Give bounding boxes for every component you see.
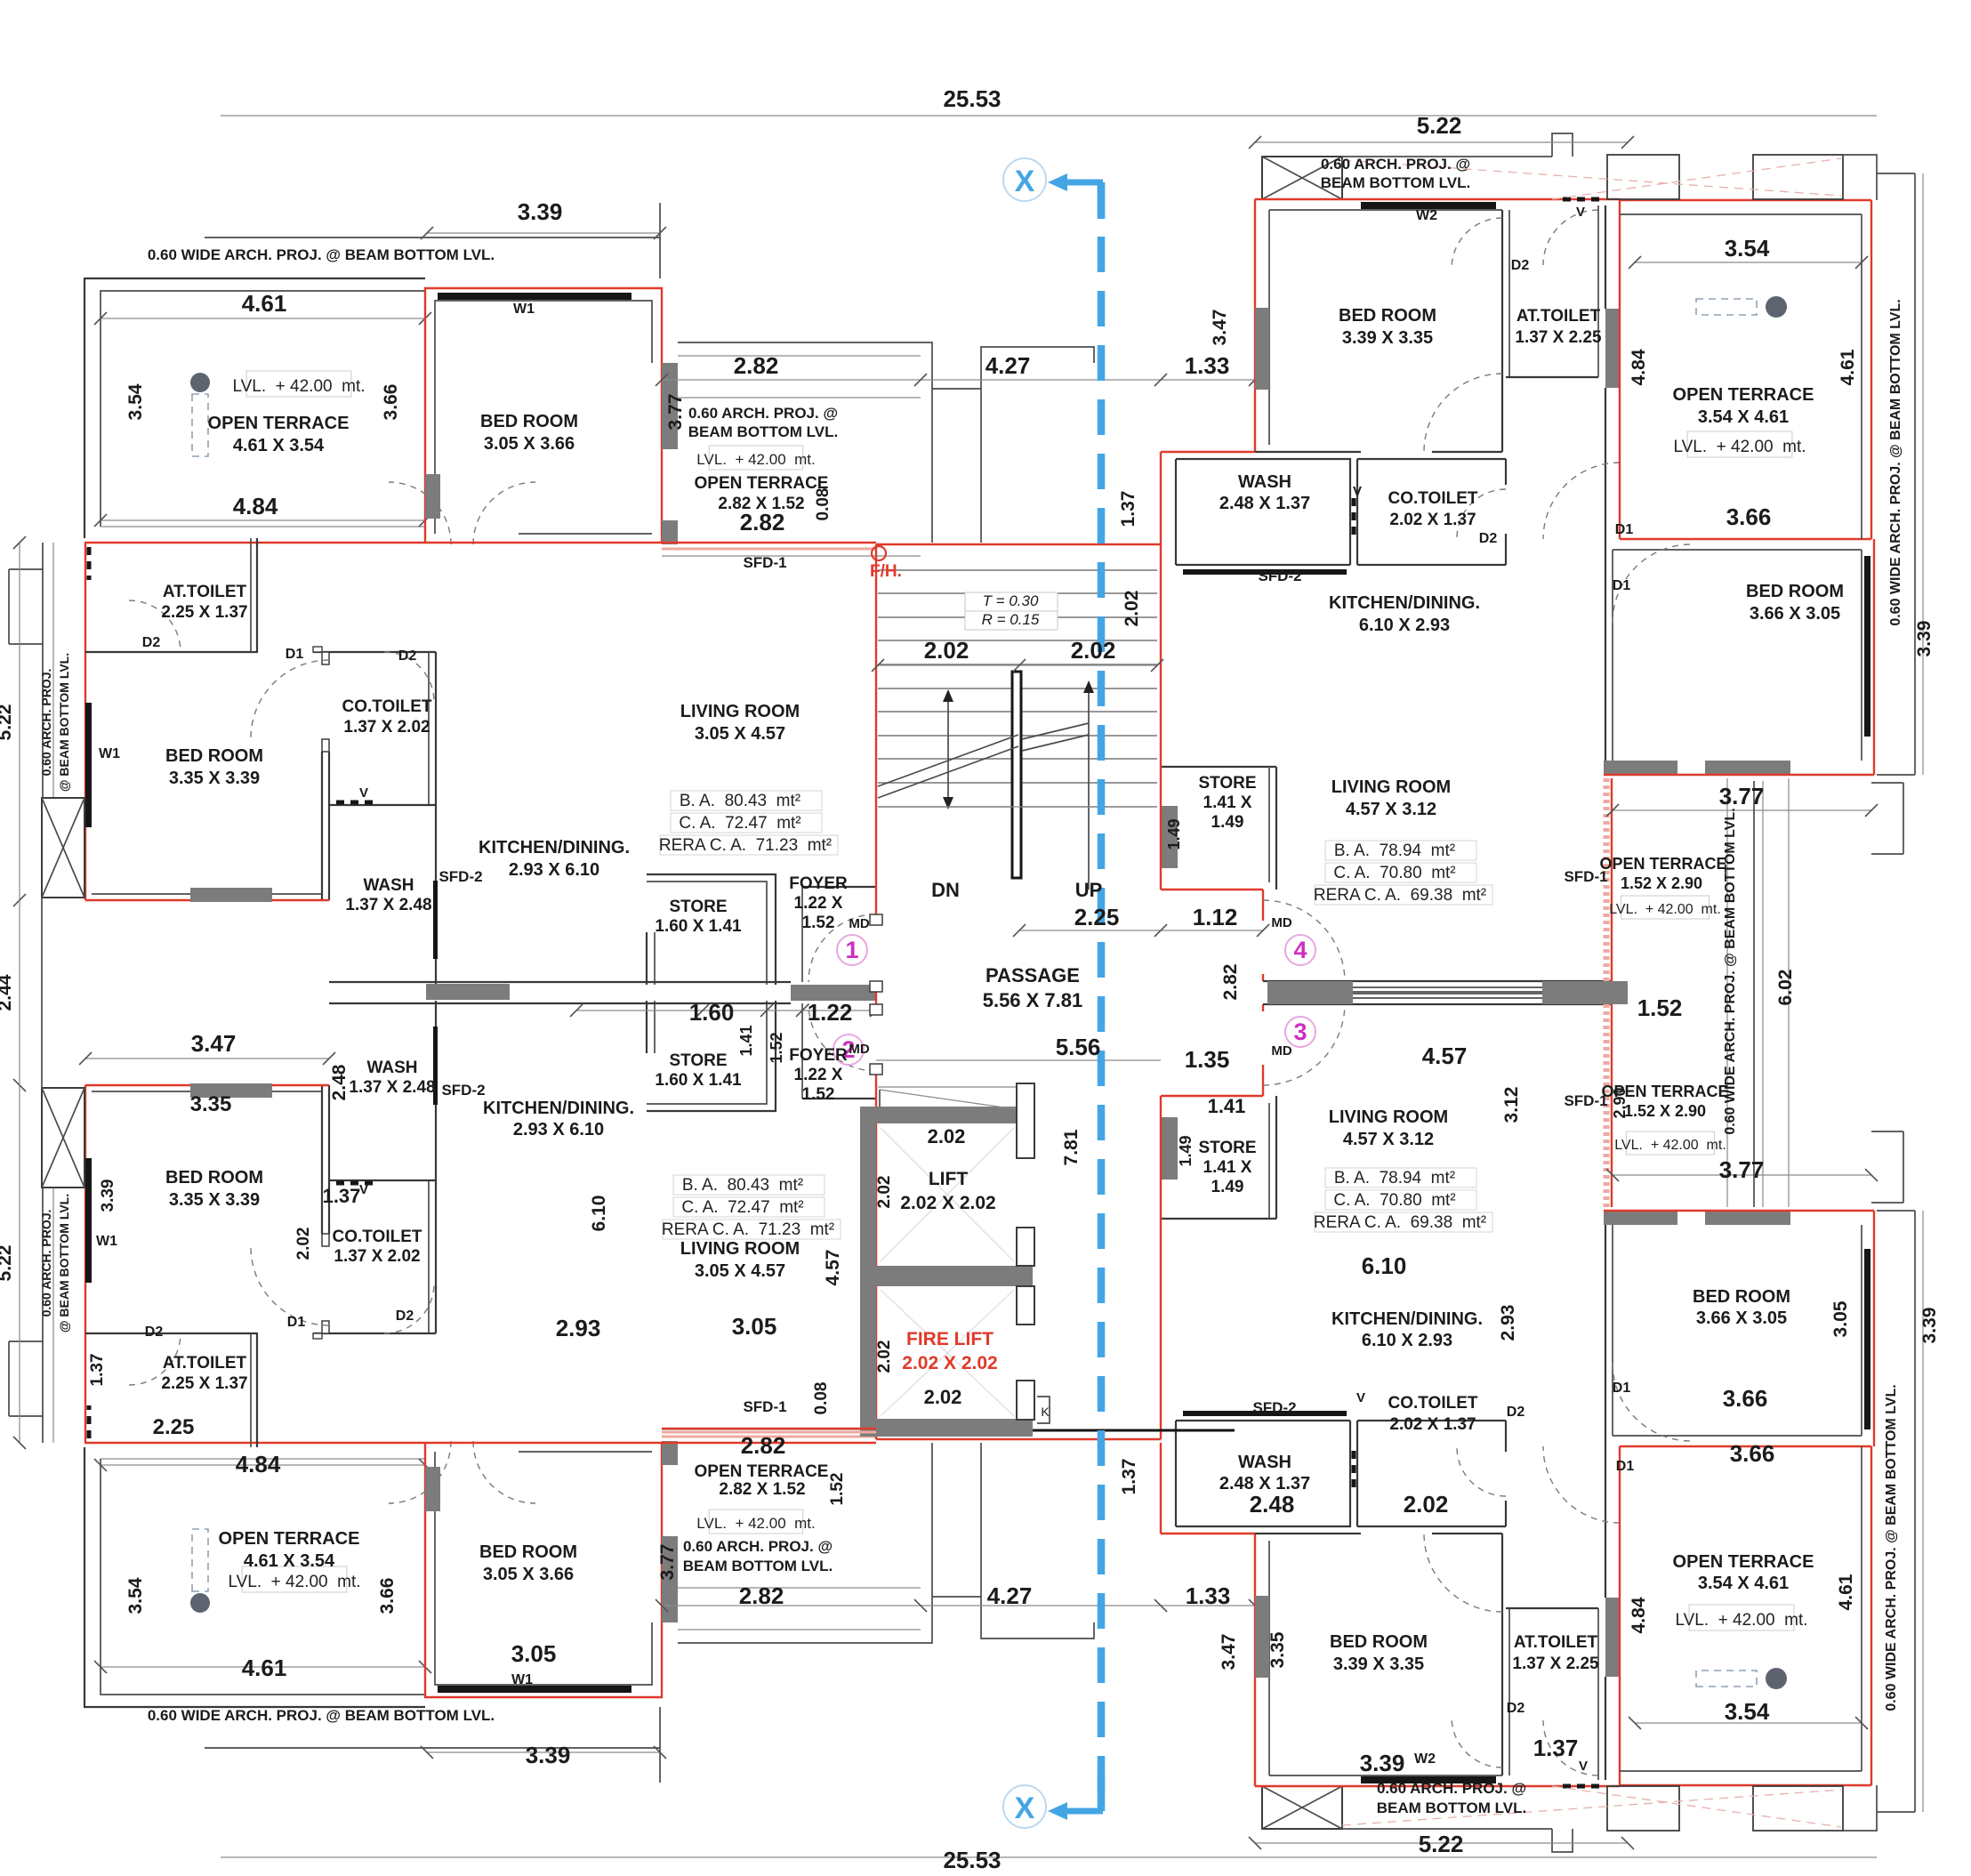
svg-text:4.27: 4.27 (987, 1582, 1033, 1609)
foyer MD door arc (809, 914, 876, 982)
bedroom right inner walls (1268, 210, 1270, 445)
svg-text:B. A. 78.94 mt²: B. A. 78.94 mt² (1334, 1169, 1455, 1188)
svg-text:MD: MD (1271, 1043, 1291, 1059)
svg-text:X: X (1015, 1791, 1035, 1825)
6.02 dim vertical (1788, 778, 1790, 993)
door arc D1 bedroom ML (251, 660, 329, 738)
svg-text:R = 0.15: R = 0.15 (982, 611, 1040, 628)
svg-text:BED ROOM: BED ROOM (480, 412, 578, 431)
svg-text:3.54 X 4.61: 3.54 X 4.61 (1698, 1574, 1789, 1593)
svg-text:1.37 X 2.25: 1.37 X 2.25 (1512, 1655, 1599, 1673)
svg-text:4.57 X 3.12: 4.57 X 3.12 (1343, 1130, 1434, 1149)
courtyard dim 3.47 left (85, 1058, 329, 1059)
svg-text:CO.TOILET: CO.TOILET (1388, 489, 1478, 508)
svg-text:0.60 WIDE ARCH. PROJ. @ BEAM B: 0.60 WIDE ARCH. PROJ. @ BEAM BOTTOM LVL. (148, 1707, 495, 1724)
window W2 black bar (1361, 202, 1496, 209)
svg-text:FOYER: FOYER (789, 1046, 848, 1065)
door arc 4 (unit entry) (1263, 900, 1345, 982)
svg-text:0.08: 0.08 (814, 488, 833, 521)
svg-text:STORE: STORE (669, 898, 727, 916)
vent V at.toilet (87, 547, 92, 580)
svg-text:2.25: 2.25 (153, 1415, 195, 1439)
svg-text:1.37 X 2.25: 1.37 X 2.25 (1515, 328, 1602, 347)
svg-text:3.66: 3.66 (377, 1578, 398, 1614)
svg-text:BED ROOM: BED ROOM (1746, 582, 1844, 601)
svg-text:AT.TOILET: AT.TOILET (1514, 1633, 1598, 1652)
svg-text:MD: MD (849, 916, 869, 931)
right terrace strip 1.52x2.90 (1611, 778, 1613, 981)
SFD-2 black bar (433, 881, 438, 959)
svg-text:2.82: 2.82 (739, 1582, 784, 1609)
svg-text:BED ROOM: BED ROOM (1693, 1287, 1790, 1307)
svg-text:4.84: 4.84 (1629, 1597, 1649, 1633)
svg-text:K: K (1041, 1405, 1050, 1419)
svg-text:3.05 X 3.66: 3.05 X 3.66 (484, 434, 575, 454)
WASH mid-left walls (435, 805, 437, 985)
svg-text:4.61: 4.61 (242, 290, 287, 317)
svg-text:D2: D2 (1507, 1701, 1525, 1716)
svg-text:2.90: 2.90 (1611, 1087, 1629, 1118)
svg-text:25.53: 25.53 (943, 85, 1001, 112)
WASH right walls (1176, 459, 1350, 565)
svg-text:W1: W1 (511, 1672, 533, 1687)
svg-text:6.10: 6.10 (1362, 1252, 1407, 1279)
lower corridor wall fill left wing (426, 984, 510, 1000)
svg-text:BED ROOM: BED ROOM (165, 746, 263, 766)
svg-text:CO.TOILET: CO.TOILET (333, 1228, 422, 1246)
SFD-2 right black bar (1183, 569, 1347, 575)
left dim vertical 2.44 (19, 900, 20, 1085)
kitchen/dining right upper boundary red ledge (1161, 451, 1255, 453)
svg-text:MD: MD (1271, 915, 1291, 930)
dim line 2.82 lower (662, 555, 921, 557)
svg-text:2.48: 2.48 (1250, 1491, 1295, 1518)
svg-text:LIVING ROOM: LIVING ROOM (680, 1239, 800, 1259)
svg-text:LVL. + 42.00 mt.: LVL. + 42.00 mt. (1673, 438, 1806, 456)
svg-text:1.33: 1.33 (1186, 1582, 1231, 1609)
svg-text:3.54: 3.54 (125, 1577, 146, 1614)
svg-text:3.39 X 3.35: 3.39 X 3.35 (1333, 1655, 1424, 1674)
svg-text:0.60 ARCH. PROJ. @: 0.60 ARCH. PROJ. @ (683, 1538, 833, 1555)
svg-text:4.61: 4.61 (242, 1655, 287, 1681)
unit number circle 2 (833, 1035, 864, 1065)
LVL +42.00 box (1621, 896, 1709, 919)
svg-text:D1: D1 (287, 1315, 306, 1330)
svg-text:3.39: 3.39 (526, 1742, 571, 1768)
svg-text:2.02: 2.02 (875, 1176, 894, 1209)
svg-text:5.56 X 7.81: 5.56 X 7.81 (983, 989, 1083, 1011)
svg-text:V: V (1576, 205, 1585, 220)
right strip inner edge (1726, 778, 1728, 1207)
terrace right rainpipe icon (1696, 299, 1757, 315)
lift left gray wall (860, 1123, 876, 1419)
svg-text:W1: W1 (96, 1234, 117, 1249)
svg-text:5.56: 5.56 (1056, 1034, 1101, 1060)
svg-text:SFD-2: SFD-2 (438, 868, 482, 885)
svg-text:2.82: 2.82 (741, 1432, 786, 1459)
svg-text:RERA C. A. 69.38 mt²: RERA C. A. 69.38 mt² (1314, 886, 1486, 905)
window W1 black bar (438, 293, 632, 300)
CO.TOILET right walls (1356, 459, 1358, 565)
svg-text:1.41 X: 1.41 X (1203, 793, 1252, 812)
svg-text:LVL. + 42.00 mt.: LVL. + 42.00 mt. (696, 1515, 815, 1532)
svg-text:1.60 X 1.41: 1.60 X 1.41 (655, 1071, 742, 1090)
svg-text:4.84: 4.84 (236, 1451, 281, 1477)
svg-text:1.60 X 1.41: 1.60 X 1.41 (655, 917, 742, 936)
svg-text:RERA C. A. 71.23 mt²: RERA C. A. 71.23 mt² (659, 836, 832, 855)
open terrace 2.82x1.52 proj lines (678, 342, 932, 543)
red boundary under terrace 2.82 (662, 542, 876, 543)
red top boundary right unit (1255, 198, 1620, 200)
pink dashed diagonals top-right (1342, 160, 1841, 196)
svg-text:D2: D2 (1507, 1405, 1525, 1420)
bedroom top-left inner walls (435, 301, 652, 534)
CO.TOILET mid-left walls (329, 651, 436, 653)
svg-text:KITCHEN/DINING.: KITCHEN/DINING. (1331, 1309, 1483, 1329)
svg-text:BED ROOM: BED ROOM (1339, 306, 1436, 326)
svg-text:OPEN TERRACE: OPEN TERRACE (695, 1462, 829, 1481)
svg-text:3.35 X 3.39: 3.35 X 3.39 (169, 769, 260, 788)
svg-text:V: V (359, 1182, 368, 1197)
svg-text:6.10 X 2.93: 6.10 X 2.93 (1359, 616, 1450, 635)
svg-text:3.54: 3.54 (1725, 1698, 1770, 1725)
bedroom right2 3.66x3.05 red boundary (1620, 538, 1871, 540)
svg-text:3.54 X 4.61: 3.54 X 4.61 (1698, 407, 1789, 427)
svg-text:3.39 X 3.35: 3.39 X 3.35 (1342, 328, 1433, 348)
svg-text:6.10 X 2.93: 6.10 X 2.93 (1362, 1331, 1452, 1350)
passage dim line 5.56 (876, 1059, 1161, 1061)
svg-text:2.82: 2.82 (1220, 964, 1241, 1001)
svg-text:2.02: 2.02 (1071, 637, 1116, 664)
dim line 2.25/1.12 (1019, 930, 1263, 931)
dim 5.22 top-right (1255, 141, 1628, 143)
dim lines terrace right (1635, 262, 1862, 263)
terrace rainpipe icon (190, 373, 210, 392)
svg-text:2.48: 2.48 (329, 1064, 350, 1100)
svg-text:1.12: 1.12 (1193, 904, 1238, 930)
svg-text:1.22: 1.22 (808, 999, 853, 1026)
svg-text:5.22: 5.22 (0, 705, 15, 741)
svg-text:3.05 X 4.57: 3.05 X 4.57 (695, 724, 785, 744)
door arc D1 bedroom right (1424, 374, 1502, 452)
dim line 4.84 terrace (101, 519, 425, 521)
svg-text:LVL. + 42.00 mt.: LVL. + 42.00 mt. (232, 377, 365, 396)
svg-text:PASSAGE: PASSAGE (985, 964, 1080, 986)
svg-text:V: V (1356, 1390, 1365, 1405)
svg-text:25.53: 25.53 (943, 1847, 1001, 1872)
svg-text:4.61: 4.61 (1838, 349, 1858, 385)
left dim vertical line (19, 543, 20, 900)
svg-text:D1: D1 (286, 647, 304, 662)
svg-text:1.41 X: 1.41 X (1203, 1158, 1252, 1177)
svg-text:0.60 ARCH. PROJ.: 0.60 ARCH. PROJ. (39, 1210, 53, 1317)
svg-text:2.82: 2.82 (740, 509, 785, 535)
svg-text:BED ROOM: BED ROOM (165, 1168, 263, 1188)
open terrace right 3.54x4.61 red boundary (1620, 199, 1871, 201)
svg-text:0.60 ARCH. PROJ. @: 0.60 ARCH. PROJ. @ (1377, 1780, 1526, 1797)
svg-text:5.22: 5.22 (1419, 1831, 1464, 1857)
svg-text:LIVING ROOM: LIVING ROOM (1329, 1107, 1448, 1127)
svg-text:SFD-2: SFD-2 (1258, 568, 1301, 584)
door arc D1 terrace right (1543, 463, 1620, 539)
svg-text:BEAM BOTTOM LVL.: BEAM BOTTOM LVL. (688, 423, 838, 440)
svg-text:1.52: 1.52 (802, 1085, 835, 1104)
svg-text:2.48 X 1.37: 2.48 X 1.37 (1219, 494, 1310, 513)
stair core red boundary left (875, 544, 877, 925)
svg-text:1.60: 1.60 (689, 999, 735, 1026)
svg-text:W2: W2 (1414, 1751, 1436, 1767)
svg-text:4.57 X 3.12: 4.57 X 3.12 (1346, 800, 1436, 819)
pink hatch SFD-1 (662, 548, 876, 551)
red boundary under store right (1161, 889, 1263, 890)
svg-text:3.54: 3.54 (125, 383, 146, 420)
svg-text:BED ROOM: BED ROOM (1330, 1632, 1428, 1652)
STORE top-left walls (647, 874, 776, 985)
store right upper (1161, 806, 1178, 868)
svg-text:2.93 X 6.10: 2.93 X 6.10 (509, 860, 599, 880)
svg-text:2.93: 2.93 (556, 1315, 601, 1341)
svg-text:WASH: WASH (367, 1059, 418, 1077)
svg-text:2.02: 2.02 (875, 1341, 894, 1373)
svg-text:4.61: 4.61 (1836, 1574, 1856, 1610)
LVL +42.00 box (242, 1566, 347, 1592)
svg-text:3.66: 3.66 (1723, 1385, 1768, 1412)
bedroom 3.05x3.66 top-left red boundary (425, 288, 662, 543)
right outer bracket mid (1871, 783, 1903, 854)
svg-text:@ BEAM BOTTOM LVL.: @ BEAM BOTTOM LVL. (57, 1194, 71, 1333)
svg-text:2.02: 2.02 (928, 1125, 966, 1147)
F/H hydrant symbol (872, 546, 886, 560)
svg-text:4.57: 4.57 (823, 1250, 843, 1286)
svg-text:3.39: 3.39 (518, 198, 563, 225)
dim line 4.61 terrace (101, 318, 425, 319)
open terrace top-left outer walls (84, 278, 425, 538)
svg-text:C. A. 72.47 mt²: C. A. 72.47 mt² (681, 1198, 803, 1217)
svg-text:KITCHEN/DINING.: KITCHEN/DINING. (1329, 593, 1480, 613)
svg-text:LVL. + 42.00 mt.: LVL. + 42.00 mt. (1675, 1611, 1807, 1630)
svg-text:1.35: 1.35 (1185, 1046, 1230, 1073)
svg-text:V: V (1579, 1759, 1588, 1774)
svg-text:AT.TOILET: AT.TOILET (163, 583, 247, 601)
svg-text:6.10: 6.10 (589, 1196, 609, 1232)
svg-text:OPEN TERRACE: OPEN TERRACE (695, 474, 829, 493)
svg-text:1.37: 1.37 (1118, 491, 1138, 527)
svg-text:2.25: 2.25 (1074, 904, 1120, 930)
svg-text:3.39: 3.39 (1360, 1750, 1405, 1776)
svg-text:3.39: 3.39 (99, 1180, 117, 1212)
svg-text:2.02: 2.02 (924, 637, 969, 664)
door arc D2 co.toilet (384, 652, 434, 702)
svg-text:0.60 ARCH. PROJ. @: 0.60 ARCH. PROJ. @ (1321, 156, 1470, 173)
AT.TOILET mid-left walls (85, 651, 258, 653)
svg-text:3.39: 3.39 (1914, 621, 1935, 657)
svg-text:D2: D2 (145, 1324, 164, 1340)
svg-text:2.02: 2.02 (1404, 1491, 1449, 1518)
svg-text:OPEN TERRACE: OPEN TERRACE (1599, 855, 1726, 873)
svg-text:1.22 X: 1.22 X (794, 1066, 843, 1084)
bedroom right 3.39x3.35 red left wall (1254, 199, 1256, 452)
svg-text:D1: D1 (1615, 522, 1634, 537)
wall fills right of bedroom (662, 363, 678, 449)
svg-text:1.52 X 2.90: 1.52 X 2.90 (1621, 874, 1702, 892)
LVL +42.00 box (709, 1510, 802, 1534)
svg-text:CO.TOILET: CO.TOILET (1388, 1394, 1478, 1413)
svg-text:D1: D1 (1616, 1459, 1635, 1474)
svg-text:WASH: WASH (1238, 1453, 1291, 1472)
door arc D1 bedroom right2 (1613, 544, 1691, 623)
svg-text:SFD-2: SFD-2 (1252, 1399, 1296, 1416)
svg-text:STORE: STORE (1198, 774, 1256, 793)
upper half plan geometry (9, 133, 1923, 1001)
svg-text:D2: D2 (398, 648, 417, 664)
foyer walls (801, 887, 803, 982)
svg-text:3.05: 3.05 (732, 1313, 777, 1340)
svg-text:3.77: 3.77 (665, 394, 686, 431)
stair center rail (1012, 672, 1021, 878)
lift diag thin line (880, 1090, 1017, 1109)
svg-text:2.93: 2.93 (1498, 1305, 1518, 1341)
dim 3.77 right (1613, 809, 1871, 811)
svg-text:1.49: 1.49 (1177, 1135, 1195, 1166)
svg-text:4.84: 4.84 (233, 493, 278, 519)
svg-text:LVL. + 42.00 mt.: LVL. + 42.00 mt. (1614, 1138, 1726, 1153)
area table (671, 791, 822, 810)
svg-text:D2: D2 (1511, 258, 1530, 273)
section line X-X blue dashed (1003, 158, 1103, 1828)
svg-text:1.49: 1.49 (1165, 818, 1183, 849)
svg-text:LIFT: LIFT (929, 1169, 968, 1189)
svg-text:3.66 X 3.05: 3.66 X 3.05 (1750, 604, 1840, 624)
svg-text:2.82: 2.82 (734, 352, 779, 379)
K box (1037, 1397, 1050, 1423)
svg-text:STORE: STORE (669, 1051, 727, 1070)
svg-text:3.47: 3.47 (1210, 310, 1230, 346)
LVL +42.00 box (1626, 1131, 1714, 1155)
svg-text:7.81: 7.81 (1061, 1129, 1082, 1165)
svg-text:4.84: 4.84 (1629, 349, 1649, 385)
area table (673, 1175, 825, 1195)
lift bottom gray band (860, 1419, 1033, 1437)
svg-text:V: V (1353, 484, 1362, 499)
svg-text:3.66 X 3.05: 3.66 X 3.05 (1696, 1308, 1787, 1328)
black line below fire lift (1033, 1429, 1235, 1432)
svg-text:0.60 WIDE ARCH. PROJ. @ BEAM B: 0.60 WIDE ARCH. PROJ. @ BEAM BOTTOM LVL. (148, 246, 495, 263)
svg-text:1.37 X 2.02: 1.37 X 2.02 (343, 718, 430, 737)
lift shaft top gray band (860, 1107, 1033, 1123)
stair direction arrows (947, 694, 949, 805)
bedroom mid-left walls (313, 651, 329, 653)
svg-text:BEAM BOTTOM LVL.: BEAM BOTTOM LVL. (1321, 174, 1470, 191)
svg-text:SFD-1: SFD-1 (743, 554, 786, 571)
vent V dashes on top wall (1563, 197, 1603, 202)
svg-text:WASH: WASH (364, 876, 414, 895)
unit number circle 4 (1285, 935, 1315, 965)
top-right arch proj column box (1262, 157, 1342, 199)
svg-text:D2: D2 (396, 1308, 414, 1324)
svg-text:4: 4 (1293, 937, 1307, 963)
unit1 red boundary along terrace bottom (84, 542, 662, 543)
svg-text:1.49: 1.49 (1211, 813, 1244, 832)
dim line 2.82/4.27/1.33 row (662, 379, 1255, 381)
svg-text:2.44: 2.44 (0, 974, 15, 1010)
svg-text:LIVING ROOM: LIVING ROOM (680, 702, 800, 721)
proj outline right of terrace2.82 (932, 389, 981, 543)
lift mid gray band (876, 1266, 1033, 1286)
LVL +42.00 box (709, 446, 802, 470)
svg-text:FIRE LIFT: FIRE LIFT (906, 1329, 994, 1349)
svg-text:3.05: 3.05 (1830, 1300, 1851, 1337)
svg-text:X: X (1015, 165, 1035, 198)
svg-text:1.52: 1.52 (828, 1473, 847, 1506)
svg-text:1.49: 1.49 (1211, 1178, 1244, 1196)
svg-text:RERA C. A. 69.38 mt²: RERA C. A. 69.38 mt² (1314, 1213, 1486, 1232)
svg-text:T = 0.30: T = 0.30 (983, 592, 1039, 609)
svg-text:1.37: 1.37 (1119, 1459, 1139, 1495)
svg-text:3.05 X 4.57: 3.05 X 4.57 (695, 1261, 785, 1281)
svg-text:OPEN TERRACE: OPEN TERRACE (208, 414, 350, 433)
dim line 25.53 top (221, 115, 1877, 117)
top-left arch projection line (205, 237, 660, 238)
svg-text:0.60 WIDE ARCH. PROJ. @ BEAM B: 0.60 WIDE ARCH. PROJ. @ BEAM BOTTOM LVL. (1884, 1384, 1899, 1711)
tread/riser info box (965, 592, 1058, 630)
svg-text:AT.TOILET: AT.TOILET (1516, 307, 1601, 326)
svg-text:DN: DN (931, 879, 960, 901)
stair treads (878, 569, 1157, 571)
lift X marks (881, 1128, 1014, 1261)
area table (1325, 1168, 1476, 1188)
door arc D2 co.toilet right (1457, 489, 1506, 538)
svg-text:2.93 X 6.10: 2.93 X 6.10 (513, 1120, 604, 1139)
svg-text:FOYER: FOYER (789, 874, 848, 893)
svg-text:KITCHEN/DINING.: KITCHEN/DINING. (479, 838, 630, 857)
svg-text:5.22: 5.22 (0, 1245, 15, 1282)
svg-text:3: 3 (1293, 1019, 1307, 1045)
bedroom ML bottom red + sill (85, 899, 329, 901)
mirrored lower half geometry (9, 985, 1923, 1852)
section marker X bottom (1003, 1785, 1046, 1828)
svg-text:BED ROOM: BED ROOM (479, 1542, 577, 1562)
svg-text:WASH: WASH (1238, 472, 1291, 492)
svg-text:1.41: 1.41 (737, 1025, 755, 1056)
stair cut diagonals (878, 735, 1018, 786)
svg-text:UP: UP (1075, 879, 1103, 901)
svg-text:3.47: 3.47 (1219, 1634, 1239, 1671)
svg-text:D2: D2 (142, 635, 161, 650)
door jamb bedroom TL (425, 474, 440, 519)
svg-text:1.37: 1.37 (323, 1185, 361, 1207)
svg-text:5.22: 5.22 (1417, 112, 1462, 139)
svg-text:1.52: 1.52 (1637, 994, 1683, 1021)
svg-text:KITCHEN/DINING.: KITCHEN/DINING. (483, 1099, 634, 1118)
svg-text:4.27: 4.27 (985, 352, 1031, 379)
svg-text:0.60 ARCH. PROJ. @: 0.60 ARCH. PROJ. @ (688, 405, 838, 422)
foyer door jambs on core wall (870, 914, 882, 925)
stair core red boundary right (1160, 543, 1162, 890)
corridor right wing wall (1263, 980, 1612, 982)
terrace right inner lines (1620, 213, 1862, 215)
svg-text:W1: W1 (513, 302, 535, 317)
left unit boundary red x=96 (84, 543, 86, 900)
far-left column box with cross (42, 798, 84, 898)
svg-text:3.66: 3.66 (1726, 503, 1772, 530)
dim line 2.02 2.02 stair (878, 664, 1157, 666)
svg-text:B. A. 80.43 mt²: B. A. 80.43 mt² (682, 1176, 803, 1195)
wall fill bedroom right (1255, 308, 1269, 390)
svg-text:1.37: 1.37 (1533, 1735, 1579, 1761)
svg-text:0.60 ARCH. PROJ.: 0.60 ARCH. PROJ. (39, 669, 53, 777)
svg-text:2.02: 2.02 (924, 1386, 962, 1408)
vent V co.toilet dashes (336, 801, 374, 805)
